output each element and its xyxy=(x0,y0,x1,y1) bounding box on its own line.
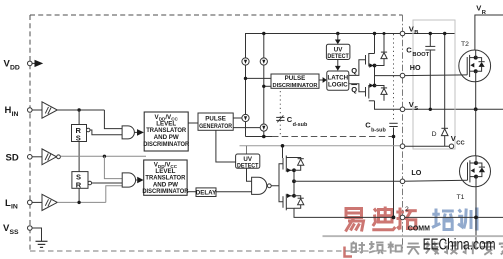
设 xyxy=(444,242,457,254)
box level translator 2 (low side) xyxy=(144,160,187,195)
wire N-FET source to VS xyxy=(375,101,401,110)
wire to pulse discriminator input 1 xyxy=(246,77,272,79)
text pulse discriminator xyxy=(273,75,319,89)
box delay xyxy=(196,188,216,197)
buffer LIN xyxy=(42,194,57,210)
current source I2 xyxy=(260,58,267,65)
wire T1 source to COMM xyxy=(475,187,477,248)
node PD input 2 xyxy=(262,85,265,88)
diode D bootstrap xyxy=(441,34,448,147)
rail VDD top (to VB) xyxy=(246,34,401,137)
dotted link Cd-sub xyxy=(279,91,281,137)
svg-text:LATCH: LATCH xyxy=(328,75,349,82)
package boundary dash-dot right edge xyxy=(402,15,404,251)
svg-text:IN: IN xyxy=(11,204,18,211)
wire LIN up to AND2 xyxy=(106,186,122,203)
AND gate A2 xyxy=(122,173,135,187)
wire to pulse discriminator input 2 xyxy=(264,85,271,87)
rail COMM external xyxy=(405,216,503,218)
watermark red fragment bottom-left xyxy=(345,247,353,257)
wire SD to buffer xyxy=(32,156,42,158)
node PD input 1 xyxy=(244,77,247,80)
频 xyxy=(369,241,384,254)
vertical current source line B xyxy=(263,34,265,137)
svg-text:DETECT: DETECT xyxy=(237,162,259,169)
svg-text:T1: T1 xyxy=(457,194,465,201)
inverter SD xyxy=(42,149,57,165)
watermark char 培 (blue) xyxy=(432,209,454,230)
wire Qbar to N-gate xyxy=(349,84,366,92)
box UV detect 1 xyxy=(326,44,350,59)
arrow into translator 1 xyxy=(137,129,144,136)
node SD branch xyxy=(103,155,106,158)
svg-text:GENERATOR: GENERATOR xyxy=(199,123,232,130)
box pulse generator xyxy=(198,113,233,130)
wire NAND output split to gates xyxy=(271,164,283,186)
svg-text:b-sub: b-sub xyxy=(371,128,386,134)
watermark char 迪 (red) xyxy=(372,207,395,230)
box level translator 1 (high side) xyxy=(144,112,188,151)
wire A2 output xyxy=(136,179,138,181)
terminal HIN xyxy=(28,108,33,113)
wire HIN to buffer xyxy=(32,109,42,111)
latch SR (low side) xyxy=(72,172,92,189)
ground symbol xyxy=(36,240,48,242)
text latch logic xyxy=(328,75,349,89)
wire VDD stub xyxy=(32,62,34,64)
wire LO output node xyxy=(293,170,295,196)
transistor T2 xyxy=(459,50,491,82)
package boundary dashed left edge xyxy=(29,15,31,251)
capacitor C_d-sub plates xyxy=(276,116,284,118)
svg-text:AND PW: AND PW xyxy=(154,134,179,141)
wire LIN buffer output xyxy=(57,201,106,203)
terminal VSS xyxy=(28,226,33,231)
wire HO to terminal xyxy=(375,75,401,77)
svg-text:COMM: COMM xyxy=(408,225,430,232)
arrow into translator 2 xyxy=(137,177,143,184)
wire substrate horizontal solid xyxy=(246,136,273,138)
svg-text:d-sub: d-sub xyxy=(293,122,308,128)
svg-text:Q: Q xyxy=(351,66,357,75)
substrate dotted line vertical xyxy=(393,34,395,121)
package boundary dashed bottom edge xyxy=(30,250,403,252)
rail VCC internal (gray) xyxy=(240,145,401,147)
svg-text:D: D xyxy=(432,131,437,138)
svg-text:DISCRIMINATOR: DISCRIMINATOR xyxy=(273,83,319,89)
arrow PD to latch logic xyxy=(319,79,323,81)
wire PG to current source B xyxy=(233,127,260,129)
substrate line solid to COMM xyxy=(393,128,395,218)
terminal VS xyxy=(400,107,405,112)
node VB tap xyxy=(373,32,376,35)
svg-text:2: 2 xyxy=(405,206,409,213)
svg-text:DISCRIMINATOR: DISCRIMINATOR xyxy=(143,141,189,148)
wire latch1 output to AND1 xyxy=(90,130,122,135)
node COMM-substrate xyxy=(392,216,396,220)
node rail-B junction xyxy=(262,32,265,35)
wire T2 gate from HO xyxy=(403,74,468,77)
text UV detect 1 xyxy=(327,47,349,61)
svg-text:PULSE: PULSE xyxy=(285,75,306,82)
terminal VB xyxy=(400,31,405,36)
VDD input arrow xyxy=(35,60,44,67)
svg-text:SD: SD xyxy=(6,152,19,163)
gray box bootstrap external xyxy=(413,20,455,149)
svg-text:LO: LO xyxy=(411,168,421,177)
天 xyxy=(407,244,420,255)
svg-text:Q: Q xyxy=(351,85,357,94)
svg-text:DETECT: DETECT xyxy=(327,53,349,60)
svg-text:CC: CC xyxy=(456,140,465,146)
wire LIN to buffer xyxy=(32,201,42,203)
svg-text:DELAY: DELAY xyxy=(196,190,217,197)
svg-text:R: R xyxy=(76,180,82,189)
watermark char 拓 (red) xyxy=(396,208,417,230)
watermark char 训 (blue) xyxy=(458,208,477,231)
wire vertical through latches xyxy=(78,110,80,202)
arrow VB down into UV detect 1 xyxy=(337,34,339,41)
svg-text:IN: IN xyxy=(12,111,19,118)
current source I3 xyxy=(242,114,249,121)
wire N source to COMM xyxy=(294,208,392,217)
node substrate-dash junction xyxy=(392,135,396,139)
wire T2 source to VS xyxy=(475,82,477,110)
box latch logic xyxy=(327,71,349,90)
high side driver P-FET xyxy=(366,53,375,68)
terminal SD xyxy=(28,155,33,160)
wire VCC external xyxy=(405,145,450,147)
wire VSS stub xyxy=(32,228,41,241)
svg-text:B: B xyxy=(414,30,418,36)
wire UV2 to NAND input xyxy=(247,168,252,181)
svg-text:EEChina.com: EEChina.com xyxy=(423,237,496,254)
capacitor C_b-sub plates xyxy=(389,122,397,124)
transistor T1 xyxy=(460,156,491,187)
terminal HO xyxy=(400,73,405,78)
rail VB external xyxy=(405,33,455,35)
svg-text:DISCRIMINATOR: DISCRIMINATOR xyxy=(142,188,188,195)
diode clamp top (high side) xyxy=(375,34,388,66)
wire PG to current source A xyxy=(233,117,242,119)
svg-text:LOGIC: LOGIC xyxy=(328,82,348,89)
AND gate A1 xyxy=(122,126,134,139)
diode clamp top (low side) xyxy=(294,158,304,171)
计 xyxy=(463,242,477,255)
svg-text:SS: SS xyxy=(10,229,20,236)
wire latch2 output to AND2 xyxy=(92,182,123,184)
svg-text:T2: T2 xyxy=(461,41,469,48)
wire translator1 to pulse generator xyxy=(188,122,198,124)
buffer HIN xyxy=(42,102,57,118)
node VB to UV1 xyxy=(336,32,339,35)
terminal VDD xyxy=(28,61,33,66)
svg-text:BOOT: BOOT xyxy=(412,52,429,58)
wire SD output xyxy=(60,155,146,157)
low side driver P-FET xyxy=(283,156,294,173)
diode clamp bottom (high side) xyxy=(375,86,388,101)
node VCC open circle xyxy=(449,144,453,148)
svg-text:S: S xyxy=(76,133,81,142)
svg-text:S: S xyxy=(414,106,418,112)
专 xyxy=(481,241,494,255)
box pulse discriminator xyxy=(271,74,319,88)
wire LO to terminal xyxy=(294,180,400,182)
NAND gate low side xyxy=(252,177,267,194)
arrow UV1 down into latch logic xyxy=(337,60,339,67)
diode clamp bottom (low side) xyxy=(294,196,304,209)
terminal LIN xyxy=(28,200,33,205)
watermark gray text 射频和天线设计专家 (hand-drawn strokes) xyxy=(352,241,503,255)
svg-text:DD: DD xyxy=(10,64,20,71)
wire HIN buffer output xyxy=(57,109,104,111)
和 xyxy=(388,242,402,254)
text pulse generator xyxy=(199,116,232,130)
wire VB to P-FET source xyxy=(374,34,376,54)
家 xyxy=(500,241,503,255)
rail VR xyxy=(475,15,503,50)
wire HIN down to AND1 xyxy=(104,110,122,129)
box UV detect 2 xyxy=(236,154,260,168)
wire HO output node xyxy=(374,66,376,86)
wire VCC to P-FET xyxy=(282,146,284,158)
capacitor C_BOOT xyxy=(425,34,435,110)
node LIN branch xyxy=(77,201,80,204)
watermark gray rule xyxy=(323,235,503,237)
wire VCC to UV detect 2 xyxy=(246,146,248,154)
wire Q to P-gate xyxy=(349,60,366,76)
wire T1 drain from VS xyxy=(475,109,477,163)
current source I1 xyxy=(242,58,249,65)
wire A1 output xyxy=(134,131,137,133)
terminal VCC xyxy=(400,144,405,149)
high side driver N-FET xyxy=(366,83,375,101)
svg-text:C: C xyxy=(406,45,412,54)
text translator1 xyxy=(143,114,189,148)
rail VS external xyxy=(405,108,503,110)
node HIN branch xyxy=(77,108,80,111)
svg-text:H: H xyxy=(5,105,12,116)
wire delay to NAND xyxy=(216,191,252,193)
low side driver N-FET xyxy=(283,194,294,211)
wire PG down to UV detect 2 xyxy=(216,130,236,162)
wire substrate horizontal dashed xyxy=(272,136,392,138)
wire translator2 to delay xyxy=(187,191,196,193)
svg-text:HO: HO xyxy=(410,63,421,72)
terminal COMM xyxy=(400,215,405,220)
射 xyxy=(352,242,366,254)
wire SD down to AND2 xyxy=(104,156,122,178)
current source I4 xyxy=(260,124,267,131)
terminal LO xyxy=(400,179,405,184)
线 xyxy=(426,242,440,255)
svg-text:PULSE: PULSE xyxy=(205,116,226,123)
wire T1 gate from LO xyxy=(403,180,468,181)
latch RS (high side) xyxy=(72,125,90,142)
watermark char 易 (red) xyxy=(346,209,364,232)
text translator2 xyxy=(142,162,188,196)
package boundary dashed top edge xyxy=(30,14,403,16)
text UV detect 2 xyxy=(237,156,259,169)
